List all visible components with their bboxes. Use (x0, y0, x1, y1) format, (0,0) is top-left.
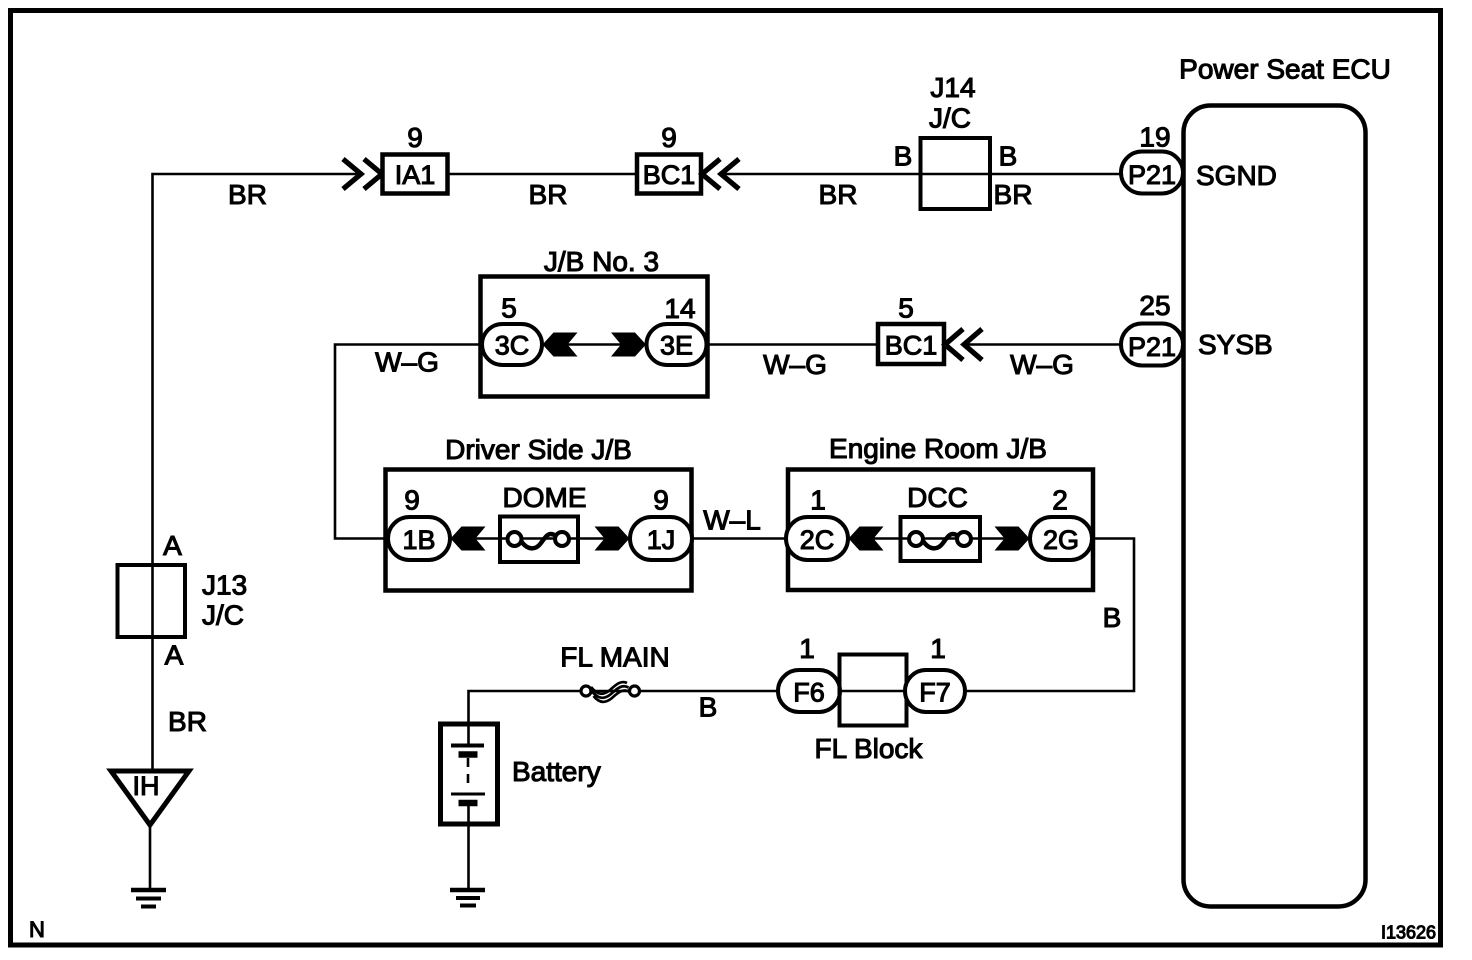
connector P21 pin 25 (SYSB) (1121, 324, 1183, 366)
svg-text:W–G: W–G (1010, 349, 1074, 380)
Engine Room J/B junction block (788, 433, 1093, 590)
svg-text:P21: P21 (1128, 332, 1176, 362)
svg-text:1: 1 (810, 485, 826, 516)
svg-text:IA1: IA1 (395, 160, 436, 190)
wire inside Engine Room J/B from 2C through DCC fuse to 2G (848, 537, 1031, 540)
wire from IH to ground (149, 825, 152, 888)
Power Seat ECU block U1 (1179, 54, 1391, 907)
svg-text:BR: BR (529, 179, 568, 210)
svg-text:A: A (165, 640, 184, 671)
connector F6 (778, 670, 840, 712)
svg-text:Driver Side J/B: Driver Side J/B (445, 434, 632, 465)
svg-text:9: 9 (653, 485, 669, 516)
svg-text:1J: 1J (647, 525, 676, 555)
svg-text:J/C: J/C (929, 103, 971, 134)
svg-text:Power Seat ECU: Power Seat ECU (1179, 54, 1391, 85)
connector 3E (647, 324, 707, 365)
wire inside Driver Side J/B from 1B through DOME fuse to 1J (450, 537, 631, 540)
svg-text:5: 5 (898, 293, 914, 324)
solid arrow pointing left at 1B (451, 527, 486, 551)
solid arrow pointing right at 2G (995, 527, 1030, 551)
wire BR from IA1 to BC1 (448, 173, 637, 176)
svg-text:SYSB: SYSB (1198, 329, 1273, 360)
connector 3C (482, 324, 542, 365)
wire W-G from 3E to BC1 (middle) (708, 343, 878, 346)
svg-text:1: 1 (799, 633, 815, 664)
svg-text:9: 9 (404, 485, 420, 516)
wire BR from junction J13 up and right to connector IA1 (153, 174, 359, 771)
svg-text:F6: F6 (793, 678, 825, 708)
svg-text:1: 1 (930, 633, 946, 664)
solid arrow pointing right at 3E (611, 333, 646, 357)
connector arrows out of BC1 (top) (702, 159, 739, 189)
solid arrow pointing right at 1J (595, 527, 630, 551)
connector F7 (905, 670, 965, 712)
junction connector J13 J/C (118, 565, 248, 637)
svg-text:IH: IH (133, 771, 160, 801)
ground connector IH (triangle) (111, 771, 189, 825)
J/B No. 3 junction block (481, 246, 708, 397)
fusible link FL MAIN (560, 642, 669, 702)
solid arrow pointing left at 3C (543, 333, 578, 357)
wire BR from BC1 through J14 to P21 SGND (723, 173, 1121, 176)
svg-text:BR: BR (228, 179, 267, 210)
connector arrows into IA1 (343, 159, 382, 189)
svg-text:Battery: Battery (512, 756, 601, 787)
svg-text:W–G: W–G (375, 347, 439, 378)
svg-text:9: 9 (407, 122, 423, 153)
svg-text:A: A (163, 530, 182, 561)
svg-text:2G: 2G (1043, 525, 1079, 555)
wire W-L from 1J to 2C (692, 537, 788, 540)
svg-text:2: 2 (1052, 485, 1068, 516)
svg-text:J13: J13 (202, 570, 247, 601)
FL Block (815, 655, 924, 765)
svg-text:B: B (894, 141, 913, 172)
svg-text:3C: 3C (495, 331, 530, 361)
wire inside J/B No.3 between 3C and 3E (542, 343, 647, 346)
Driver Side J/B junction block (386, 434, 692, 591)
junction connector J14 J/C (921, 72, 991, 209)
svg-text:B: B (1103, 602, 1122, 633)
svg-text:9: 9 (661, 122, 677, 153)
svg-text:N: N (29, 917, 45, 942)
svg-text:SGND: SGND (1196, 160, 1277, 191)
svg-text:P21: P21 (1128, 160, 1176, 190)
connector 2C (786, 517, 848, 560)
connector 1B (388, 517, 450, 560)
wire from battery to ground (467, 803, 470, 888)
battery (441, 724, 601, 824)
fuse DOME (500, 482, 587, 562)
connector 2G (1030, 517, 1092, 560)
svg-text:5: 5 (501, 293, 517, 324)
svg-text:J14: J14 (930, 72, 975, 103)
solid arrow pointing left at 2C (849, 527, 884, 551)
connector 1J (630, 517, 692, 560)
svg-text:Engine Room J/B: Engine Room J/B (829, 433, 1047, 464)
svg-text:W–L: W–L (703, 505, 761, 536)
connector arrows out of BC1 (middle) (945, 329, 982, 360)
svg-text:19: 19 (1139, 122, 1170, 153)
svg-text:1B: 1B (402, 525, 435, 555)
svg-text:BR: BR (994, 179, 1033, 210)
svg-text:J/B No. 3: J/B No. 3 (544, 246, 659, 277)
connector BC1 (middle) (878, 324, 944, 364)
ground (battery) (450, 890, 485, 906)
svg-text:BC1: BC1 (643, 160, 696, 190)
wire W-G from BC1 (middle) to P21 SYSB (966, 343, 1121, 346)
svg-text:DOME: DOME (503, 482, 587, 513)
connector P21 pin 19 (SGND) (1121, 152, 1183, 194)
fuse DCC (901, 482, 981, 561)
svg-text:B: B (699, 692, 718, 723)
svg-text:B: B (999, 141, 1018, 172)
svg-text:DCC: DCC (907, 482, 968, 513)
svg-text:J/C: J/C (202, 600, 244, 631)
wire W-G from J/B No.3 connector 3C down-left to Driver Side J/B (335, 345, 482, 539)
svg-text:25: 25 (1139, 290, 1170, 321)
svg-text:14: 14 (664, 293, 695, 324)
svg-text:F7: F7 (919, 678, 951, 708)
svg-text:2C: 2C (800, 525, 835, 555)
connector IA1 (383, 155, 448, 194)
svg-text:I13626: I13626 (1381, 923, 1436, 943)
svg-text:BR: BR (168, 706, 207, 737)
svg-text:BC1: BC1 (885, 331, 938, 361)
svg-text:FL Block: FL Block (815, 733, 924, 764)
svg-text:W–G: W–G (763, 349, 827, 380)
ground (IH) (131, 890, 166, 907)
svg-text:FL MAIN: FL MAIN (560, 642, 669, 673)
connector BC1 (top) (637, 155, 701, 194)
svg-text:3E: 3E (660, 331, 693, 361)
svg-text:BR: BR (819, 179, 858, 210)
wire B from battery through FL MAIN to F6 (469, 691, 779, 744)
wire B from 2G down to F7 (965, 539, 1134, 692)
